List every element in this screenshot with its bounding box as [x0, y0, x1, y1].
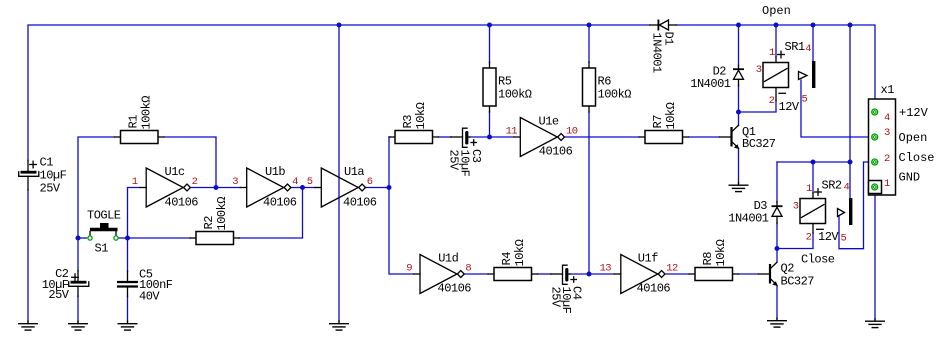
wire SR2 +12V drop from rail to close-node and contact	[849, 25, 851, 198]
wire U1f output to R8	[665, 273, 689, 275]
node junction U1a.out	[387, 185, 392, 190]
wire node to U1e input	[490, 136, 515, 138]
svg-text:R6: R6	[598, 75, 612, 89]
svg-text:R5: R5	[498, 75, 512, 89]
node junction rail x=339	[337, 23, 342, 28]
wire R7 right to Q1 base	[689, 136, 720, 138]
wire U1a output to R3/U1d riser	[366, 187, 389, 189]
diode D1	[650, 20, 677, 74]
node junction rail x=489.5	[487, 23, 492, 28]
svg-text:1: 1	[884, 178, 890, 190]
svg-text:3: 3	[793, 201, 799, 213]
relay contact SR2 pins 4/5	[838, 182, 853, 245]
inverter U1a	[307, 165, 377, 210]
svg-text:100kΩ: 100kΩ	[215, 197, 229, 231]
wire R1 feedback riser	[164, 137, 216, 188]
svg-text:9: 9	[406, 263, 412, 275]
svg-text:40106: 40106	[539, 145, 573, 159]
inverter U1c	[132, 165, 199, 210]
wire SR2 pin2 return to Q2 collector	[777, 233, 813, 249]
svg-text:25V: 25V	[40, 182, 61, 196]
node junction Q2 collector / D3 / SR2 coil	[775, 246, 780, 251]
svg-text:4: 4	[844, 182, 850, 194]
wire R5 top from rail	[489, 25, 491, 63]
wire C5 branch down	[127, 238, 129, 272]
wire IC power drop x=339 rail to ground	[338, 25, 340, 322]
svg-text:40106: 40106	[263, 196, 297, 210]
svg-text:C1: C1	[40, 156, 54, 170]
svg-text:6: 6	[367, 176, 373, 188]
wire SR2 coil pin1 drop	[812, 162, 814, 193]
svg-text:Close: Close	[801, 252, 835, 266]
wire SR2 flipper pin5 to X1 pin2 Close	[839, 162, 871, 249]
resistor R8	[689, 239, 739, 280]
wire U1d output to R4	[465, 273, 489, 275]
svg-text:4: 4	[292, 176, 298, 188]
svg-text:U1c: U1c	[165, 165, 185, 179]
wire Q2 emitter to ground	[776, 286, 778, 320]
svg-text:BC327: BC327	[781, 275, 815, 289]
wire coil-node horizontal y=162	[777, 161, 850, 163]
wire R6 bottom long drop to row274	[588, 112, 590, 275]
svg-text:5: 5	[802, 94, 808, 106]
wire C5 bottom to ground	[127, 296, 129, 322]
svg-text:40106: 40106	[343, 196, 377, 210]
capacitor C5	[117, 267, 173, 303]
svg-text:U1a: U1a	[344, 165, 364, 179]
svg-text:11: 11	[506, 126, 518, 138]
svg-text:100kΩ: 100kΩ	[140, 96, 154, 130]
svg-text:1: 1	[806, 183, 812, 195]
wire Q1 emitter to ground	[738, 149, 740, 184]
svg-text:U1b: U1b	[265, 165, 285, 179]
wire D3 cathode drop	[776, 162, 778, 202]
capacitor C1	[19, 156, 67, 196]
svg-text:10: 10	[566, 126, 578, 138]
svg-text:2: 2	[192, 176, 198, 188]
wire SR1 flipper pin5 to X1 pin3 Open	[801, 80, 871, 137]
svg-text:Open: Open	[762, 4, 791, 18]
node junction U1c.out / R1	[214, 185, 219, 190]
node junction SR2 coil pin1	[811, 160, 816, 165]
svg-text:4: 4	[805, 43, 811, 55]
svg-text:10kΩ: 10kΩ	[714, 239, 728, 266]
node junction rail x=589	[587, 23, 592, 28]
ground under C5	[118, 321, 138, 330]
node junction x=850 close row	[848, 160, 853, 165]
svg-text:10kΩ: 10kΩ	[664, 102, 678, 129]
svg-text:Open: Open	[899, 131, 928, 145]
svg-text:25V: 25V	[447, 150, 461, 171]
svg-text:S1: S1	[95, 241, 109, 255]
svg-text:2: 2	[884, 153, 890, 165]
relay coil SR1	[756, 40, 805, 114]
inverter U1b	[232, 165, 298, 210]
svg-text:R4: R4	[500, 252, 514, 266]
node junction U1b.out / R2	[300, 185, 305, 190]
diode D2	[690, 65, 744, 92]
resistor R1	[115, 96, 165, 144]
svg-text:10kΩ: 10kΩ	[513, 239, 527, 266]
wire C2 bottom to ground	[77, 296, 79, 322]
wire D2 branch from rail	[738, 25, 740, 66]
svg-text:TOGLE: TOGLE	[87, 208, 121, 222]
wire +12V top rail left of D1 and C1 branch	[28, 25, 650, 322]
svg-text:100kΩ: 100kΩ	[598, 88, 632, 102]
resistor R2	[190, 197, 240, 245]
svg-text:5: 5	[841, 233, 847, 245]
svg-text:U1d: U1d	[438, 251, 458, 265]
svg-text:BC327: BC327	[742, 137, 776, 151]
svg-text:12: 12	[666, 263, 678, 275]
svg-text:1N4001: 1N4001	[650, 33, 664, 74]
resistor R3	[389, 102, 439, 143]
svg-text:2: 2	[769, 95, 775, 107]
wire R2 right riser to U1b output	[239, 188, 303, 239]
node junction rail x=850	[848, 23, 853, 28]
wire U1c output to U1b input	[191, 187, 241, 189]
svg-text:13: 13	[600, 263, 612, 275]
svg-text:40106: 40106	[637, 282, 671, 296]
svg-text:1: 1	[132, 176, 138, 188]
svg-text:5: 5	[307, 176, 313, 188]
svg-text:12V: 12V	[818, 230, 839, 244]
diode D3	[728, 199, 782, 226]
svg-text:GND: GND	[899, 171, 921, 185]
wire S1 left stub	[78, 237, 87, 239]
svg-text:3: 3	[232, 176, 238, 188]
resistor R6	[583, 62, 632, 112]
svg-text:8: 8	[465, 263, 471, 275]
wire Q1 collector stub	[738, 112, 740, 126]
svg-text:1N4001: 1N4001	[690, 77, 731, 91]
connector X1	[869, 83, 935, 195]
inverter U1f	[600, 251, 678, 295]
node junction rail x=813	[811, 23, 816, 28]
resistor R4	[488, 239, 538, 280]
wire R4 right to C4	[538, 273, 552, 275]
svg-text:U1e: U1e	[539, 114, 559, 128]
wire SR1 contact pin4 from rail	[812, 25, 814, 61]
svg-text:+12V: +12V	[899, 106, 929, 120]
svg-text:R1: R1	[127, 115, 141, 129]
svg-text:3: 3	[884, 127, 890, 139]
wire C4 right to node	[570, 273, 589, 275]
node junction S1 right / C5 / R2 / U1c.in	[125, 236, 130, 241]
wire D2 anode to Q1 collector node	[738, 86, 740, 113]
resistor R7	[639, 102, 689, 143]
transistor Q1	[720, 125, 776, 151]
ground under C2	[68, 321, 88, 330]
wire riser x=389 R3 top to U1d input	[389, 137, 414, 274]
wire R8 right to Q2 base	[739, 273, 759, 275]
svg-text:Q2: Q2	[781, 261, 795, 275]
node junction C4/R6/U1f	[587, 272, 592, 277]
node junction S1 left / C2 / R1	[76, 236, 81, 241]
inverter U1e	[506, 114, 578, 158]
node junction rail x=738.5	[736, 23, 741, 28]
svg-text:100kΩ: 100kΩ	[498, 88, 532, 102]
inverter U1d	[406, 251, 471, 295]
wire C3 right to node	[470, 136, 490, 138]
wire X1 pin1 GND to ground	[874, 191, 876, 320]
wire R2 row to S1 node	[128, 237, 191, 239]
wire C2 branch down	[77, 238, 79, 271]
svg-text:25V: 25V	[549, 287, 563, 308]
svg-text:x1: x1	[881, 83, 895, 97]
svg-text:40106: 40106	[438, 282, 472, 296]
wire SR1 coil pin1 from rail	[775, 25, 777, 57]
wire U1e output to R7	[565, 136, 639, 138]
ground under C1	[18, 321, 38, 330]
wire SR1 pin2 return to Q1 collector	[739, 101, 777, 113]
node junction rail x=776	[774, 23, 779, 28]
transistor Q2	[759, 261, 815, 288]
svg-text:Close: Close	[899, 151, 935, 165]
wire D3 anode to Q2 node	[776, 223, 778, 262]
switch S1 TOGLE pushbutton	[87, 208, 121, 255]
wire S1 right stub	[119, 237, 128, 239]
wire U1c input vertical	[128, 188, 141, 239]
wire node to U1f input	[589, 273, 615, 275]
wire R6 top from rail	[588, 25, 590, 63]
wire U1b output to U1a input	[291, 187, 315, 189]
svg-text:R7: R7	[651, 115, 665, 129]
wire +12V rail right of D1 with corner to X1 pin4	[677, 25, 876, 109]
node junction C3/R5/U1e	[487, 135, 492, 140]
svg-text:40106: 40106	[165, 196, 199, 210]
svg-text:4: 4	[884, 112, 890, 124]
ground under Q1	[729, 183, 749, 192]
relay coil SR2	[793, 179, 842, 245]
capacitor C3	[447, 128, 484, 176]
svg-text:R3: R3	[401, 115, 415, 129]
ground under IC power drop	[329, 321, 349, 330]
wire R5 bottom to row137	[489, 112, 491, 138]
ground under X1 GND	[865, 319, 885, 328]
svg-text:40V: 40V	[139, 290, 160, 304]
wire R3 right to C3	[439, 136, 452, 138]
svg-text:R8: R8	[701, 252, 715, 266]
svg-text:25V: 25V	[48, 288, 69, 302]
ground under Q2	[767, 318, 787, 327]
svg-text:SR1: SR1	[785, 40, 805, 54]
svg-text:2: 2	[806, 232, 812, 244]
svg-text:12V: 12V	[779, 100, 800, 114]
svg-text:1: 1	[769, 47, 775, 59]
svg-text:U1f: U1f	[638, 251, 658, 265]
svg-text:1N4001: 1N4001	[728, 212, 769, 226]
wire R1 left / S1 left node vertical	[78, 137, 115, 238]
capacitor C4	[549, 265, 584, 313]
svg-text:10µF: 10µF	[40, 169, 67, 183]
svg-text:SR2: SR2	[822, 179, 842, 193]
capacitor C2	[42, 267, 89, 302]
svg-text:10kΩ: 10kΩ	[414, 102, 428, 129]
relay contact SR1 pins 4/5	[799, 43, 816, 106]
svg-text:3: 3	[756, 64, 762, 76]
node junction Q1 collector / D2 / SR1 coil	[736, 110, 741, 115]
svg-text:R2: R2	[202, 216, 216, 230]
resistor R5	[483, 62, 532, 112]
